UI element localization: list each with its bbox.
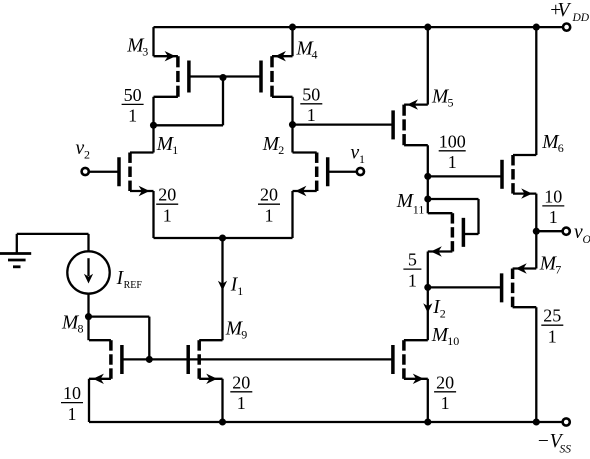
wire M3 drain to M1 drain xyxy=(152,97,154,153)
wire M10 source to VSS rail xyxy=(427,379,429,422)
svg-text:DD: DD xyxy=(572,12,590,24)
output terminal vO xyxy=(536,222,590,246)
value label M1 W/L 20/1 xyxy=(156,185,178,226)
input terminal v1 xyxy=(351,142,366,175)
transistor M3 xyxy=(154,51,224,97)
label M10 xyxy=(431,325,460,348)
transistor M7 xyxy=(502,263,537,307)
wire VDD to M5 source xyxy=(427,27,429,105)
node tail junction xyxy=(219,234,226,241)
svg-text:V: V xyxy=(558,0,572,21)
label M1 xyxy=(156,134,179,157)
svg-text:O: O xyxy=(583,234,590,246)
svg-text:10: 10 xyxy=(447,334,459,348)
label M3 xyxy=(126,35,148,58)
transistor M2 xyxy=(293,153,358,197)
node M11 source / M7 gate junction xyxy=(424,284,431,291)
value label M7 W/L 25/1 xyxy=(541,306,563,347)
svg-text:6: 6 xyxy=(558,141,564,155)
svg-text:1: 1 xyxy=(172,143,178,157)
wire M1 source down xyxy=(152,191,154,238)
svg-text:2: 2 xyxy=(440,307,446,321)
svg-text:7: 7 xyxy=(555,262,561,276)
node M3-M4 gate junction xyxy=(219,74,226,81)
value label M9 W/L 20/1 xyxy=(230,372,252,413)
svg-text:8: 8 xyxy=(78,321,84,335)
label M5 xyxy=(431,86,454,109)
svg-text:SS: SS xyxy=(560,444,572,456)
svg-text:1: 1 xyxy=(408,270,417,290)
wire mirror gate tie-down xyxy=(154,78,224,126)
svg-text:1: 1 xyxy=(237,393,246,413)
wire M5 drain to M6 gate xyxy=(428,175,501,177)
svg-text:1: 1 xyxy=(237,284,243,298)
svg-text:1: 1 xyxy=(265,206,274,226)
node M11 drain junction xyxy=(424,195,431,202)
current source IREF xyxy=(67,251,109,293)
node B M4-M2 drain junction xyxy=(289,121,296,128)
wire M2 source down xyxy=(291,191,293,238)
input terminal v2 xyxy=(76,138,91,175)
wire +VDD top rail xyxy=(154,26,564,28)
node output junction xyxy=(533,228,540,235)
label M7 xyxy=(539,253,562,276)
svg-text:1: 1 xyxy=(128,106,137,126)
node A M3 drain junction xyxy=(150,122,157,129)
svg-text:1: 1 xyxy=(548,327,557,347)
label M2 xyxy=(262,134,285,157)
transistor M6 xyxy=(502,155,536,199)
svg-text:100: 100 xyxy=(439,131,466,151)
wire M11 to M10 drain with current I2 xyxy=(423,287,432,340)
label I2 xyxy=(432,297,446,321)
node VSS-M7 junction xyxy=(533,418,540,425)
node M8 drain junction xyxy=(85,313,92,320)
label I1 xyxy=(230,275,244,299)
label M11 xyxy=(396,191,425,216)
wire M9 source to VSS rail xyxy=(221,379,223,422)
label M9 xyxy=(225,318,248,341)
wire M11 source to M7 gate xyxy=(428,286,503,288)
value label M2 W/L 20/1 xyxy=(258,185,280,226)
wire M5 drain down to M11 xyxy=(427,145,429,213)
node VDD-M5 junction xyxy=(424,24,431,31)
svg-text:4: 4 xyxy=(312,47,318,61)
svg-text:1: 1 xyxy=(307,105,316,125)
transistor M8 xyxy=(89,340,122,384)
svg-text:5: 5 xyxy=(408,250,417,270)
wire VDD to M3 source xyxy=(152,27,154,56)
label M6 xyxy=(541,132,564,155)
svg-text:1: 1 xyxy=(441,393,450,413)
value label M6 W/L 10/1 xyxy=(542,186,564,227)
wire common gate line M8-M9-M10 xyxy=(122,358,393,360)
svg-text:1: 1 xyxy=(448,152,457,172)
wire M8 source to VSS rail xyxy=(88,379,90,422)
wire VDD to M6 drain xyxy=(535,27,537,155)
wire tail to M9 drain with current I1 xyxy=(218,238,227,340)
value label M8 W/L 10/1 xyxy=(61,383,83,424)
wire node B to M5 gate xyxy=(293,123,394,125)
wire M4 source to VDD xyxy=(291,27,293,56)
node VDD-M6 junction xyxy=(533,24,540,31)
wire M7 source to VSS rail xyxy=(535,307,537,422)
transistor M1 xyxy=(88,153,153,197)
transistor M11 xyxy=(428,213,464,257)
transistor M9 xyxy=(188,340,222,384)
wire M8 drain-gate tie xyxy=(89,317,150,360)
svg-text:20: 20 xyxy=(158,185,176,205)
svg-text:20: 20 xyxy=(260,185,278,205)
svg-text:1: 1 xyxy=(359,152,365,166)
node mirror gate junction xyxy=(146,356,153,363)
label M4 xyxy=(296,38,318,61)
svg-text:10: 10 xyxy=(63,383,81,403)
svg-text:1: 1 xyxy=(163,206,172,226)
svg-text:1: 1 xyxy=(68,404,77,424)
svg-text:2: 2 xyxy=(84,147,90,161)
terminal -VSS xyxy=(537,418,572,455)
transistor M10 xyxy=(393,340,428,384)
svg-text:11: 11 xyxy=(413,202,425,216)
value label M5 W/L 100/1 xyxy=(439,131,466,172)
wire M11 source down xyxy=(427,252,429,288)
wire -VSS bottom rail xyxy=(89,421,563,423)
transistor M5 xyxy=(393,99,428,145)
svg-text:20: 20 xyxy=(232,372,250,392)
svg-text:20: 20 xyxy=(436,372,454,392)
node VDD-M4 junction xyxy=(289,24,296,31)
node VSS-M10 junction xyxy=(424,418,431,425)
wire M4 drain to M2 drain xyxy=(291,97,293,153)
ground symbol xyxy=(0,234,31,267)
svg-text:25: 25 xyxy=(543,306,561,326)
svg-text:5: 5 xyxy=(448,95,454,109)
value label M4 W/L 50/1 xyxy=(300,84,322,125)
value label M10 W/L 20/1 xyxy=(434,372,456,413)
transistor M4 xyxy=(223,51,293,97)
terminal +VDD xyxy=(549,0,590,31)
svg-text:2: 2 xyxy=(278,143,284,157)
label IREF xyxy=(116,268,143,291)
wire M6 source to output node xyxy=(535,194,537,269)
value label M3 W/L 50/1 xyxy=(122,85,144,126)
label M8 xyxy=(61,312,84,335)
svg-text:50: 50 xyxy=(302,84,320,104)
svg-text:REF: REF xyxy=(124,280,143,291)
wire diff pair tail xyxy=(154,237,293,239)
wire IREF to M8 drain xyxy=(87,294,89,341)
node M5 drain / M6 gate junction xyxy=(424,173,431,180)
wire M11 gate loop xyxy=(428,199,479,234)
svg-text:3: 3 xyxy=(142,44,148,58)
node VSS-M9 junction xyxy=(219,418,226,425)
svg-text:10: 10 xyxy=(544,186,562,206)
svg-text:1: 1 xyxy=(549,207,558,227)
value label M11 W/L 5/1 xyxy=(403,250,421,291)
svg-text:50: 50 xyxy=(124,85,142,105)
wire ground to IREF xyxy=(17,234,89,251)
svg-text:9: 9 xyxy=(241,327,247,341)
